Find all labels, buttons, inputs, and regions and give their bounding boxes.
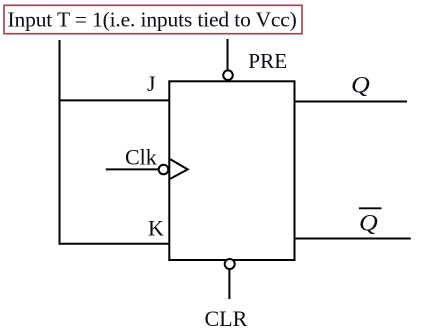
wire: CLR input (vertical, bottom) [228,269,230,299]
wire: K input (horizontal) [59,243,170,245]
bubble: PRE active-low (inversion circle) [223,70,233,80]
wire: Clk input (horizontal) [106,168,159,170]
net label Q-bar [359,208,382,236]
wire: PRE input (vertical from annotation) [227,39,229,71]
annotation box: "Input T = 1(i.e. inputs tied to Vcc)" [4,5,302,33]
svg-text:Input T = 1(i.e. inputs tied t: Input T = 1(i.e. inputs tied to Vcc) [8,8,297,32]
net label Q [351,73,370,98]
clock edge-trigger triangle [170,159,187,179]
bubble: Clk active-low (inversion circle) [159,165,169,175]
wire: Q output (horizontal) [295,101,408,103]
svg-text:CLR: CLR [205,306,248,331]
wire: Q-bar output (horizontal) [295,238,411,240]
svg-text:Clk: Clk [125,145,157,170]
wire: J input (horizontal) [59,99,170,101]
wire: J/K tie bus from Vcc annotation (vertical, left) [59,40,61,245]
svg-text:PRE: PRE [248,49,287,73]
flip-flop U1 (JK flip-flop body) [169,81,294,260]
svg-text:K: K [148,215,164,240]
svg-text:Q: Q [351,73,370,98]
svg-text:J: J [147,71,156,96]
svg-text:Q: Q [359,211,378,236]
bubble: CLR active-low (inversion circle) [225,259,235,269]
